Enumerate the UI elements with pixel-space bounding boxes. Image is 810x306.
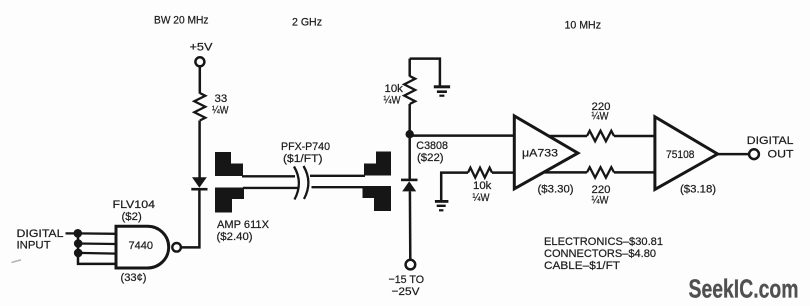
svg-text:DIGITAL: DIGITAL	[747, 135, 794, 147]
input wire to gate pin 3	[78, 252, 116, 255]
svg-text:−15 TO: −15 TO	[389, 274, 425, 286]
coax connector J1 lower shell	[215, 188, 244, 213]
svg-text:($3.30): ($3.30)	[538, 183, 574, 195]
coax cable top line left segment	[242, 175, 295, 177]
svg-text:($3.18): ($3.18)	[680, 183, 716, 195]
ground G2	[435, 200, 449, 211]
svg-text:($1/FT): ($1/FT)	[283, 153, 323, 165]
svg-text:(33¢): (33¢)	[121, 272, 147, 284]
svg-text:CABLE–$1/FT: CABLE–$1/FT	[544, 260, 620, 272]
resistor R4 220	[587, 131, 614, 141]
svg-text:ELECTRONICS–$30.81: ELECTRONICS–$30.81	[544, 236, 663, 248]
+5V terminal	[195, 57, 204, 66]
coax cable top line right segment	[310, 175, 365, 177]
svg-text:PFX-P740: PFX-P740	[281, 141, 330, 153]
input wire to gate pin 2	[78, 242, 116, 245]
svg-text:μA733: μA733	[522, 148, 558, 160]
resistor R3 10k	[468, 168, 492, 178]
svg-text:75108: 75108	[666, 149, 695, 161]
digital out label	[747, 135, 794, 161]
svg-text:¼W: ¼W	[212, 105, 229, 117]
diode D2 C3808	[401, 179, 418, 192]
svg-text:2 GHz: 2 GHz	[292, 17, 322, 29]
svg-text:SeekIC.com: SeekIC.com	[689, 276, 799, 304]
wire U3 output to terminal	[718, 153, 749, 156]
wire D1 to NAND output corner	[181, 191, 199, 248]
svg-text:+5V: +5V	[190, 42, 213, 54]
svg-text:−25V: −25V	[392, 286, 420, 298]
resistor R5 220	[587, 167, 614, 177]
svg-text:AMP 611X: AMP 611X	[217, 219, 269, 231]
svg-text:CONNECTORS–$4.80: CONNECTORS–$4.80	[544, 248, 656, 260]
digital input label	[17, 228, 64, 252]
scan artifact dash	[12, 260, 22, 263]
coax cable bottom line left segment	[243, 187, 298, 189]
input junction dot 3	[74, 249, 83, 258]
wire +5V terminal to R1	[199, 66, 202, 93]
svg-text:¼W: ¼W	[592, 195, 609, 207]
svg-text:OUT: OUT	[768, 149, 794, 161]
input wire to gate pin 1	[78, 232, 116, 235]
svg-text:($2.40): ($2.40)	[217, 231, 253, 243]
svg-text:¼W: ¼W	[592, 111, 609, 123]
svg-text:¼W: ¼W	[384, 95, 401, 107]
coax cable bottom line right segment	[312, 186, 365, 188]
input bus wire	[78, 233, 116, 264]
svg-text:FLV104: FLV104	[113, 199, 156, 211]
wire ground G2 to R3	[441, 173, 468, 201]
svg-text:33: 33	[215, 93, 228, 105]
wire junction to U2 +input	[410, 134, 515, 137]
svg-text:C3808: C3808	[416, 140, 448, 152]
digital out terminal	[749, 149, 759, 159]
diode D1 FLV104	[191, 177, 207, 190]
svg-text:($22): ($22)	[417, 152, 444, 164]
input lead wire	[66, 232, 79, 234]
coax connector J2 upper shell	[364, 152, 391, 176]
resistor R1 33 ohm	[194, 93, 205, 121]
svg-text:BW 20 MHz: BW 20 MHz	[154, 15, 209, 27]
resistor R2 10k	[404, 76, 415, 104]
svg-text:INPUT: INPUT	[17, 239, 51, 251]
svg-text:7440: 7440	[129, 240, 154, 252]
input junction dot 1	[74, 229, 83, 238]
-15V terminal	[406, 260, 416, 270]
junction node dot	[406, 130, 414, 138]
svg-text:¼W: ¼W	[473, 192, 490, 204]
wire D2 to -15V terminal	[409, 191, 412, 260]
svg-text:10k: 10k	[473, 180, 492, 192]
wire U2 top output to R4	[549, 135, 587, 138]
wire R5 to U3	[614, 171, 656, 174]
wire R3 to U2 -input	[492, 171, 515, 174]
amplifier U2 uA733	[514, 116, 578, 189]
line receiver U3 75108	[655, 117, 718, 190]
NAND gate U1 7440	[116, 226, 181, 268]
input junction dot 2	[74, 239, 83, 248]
svg-text:DIGITAL: DIGITAL	[17, 228, 64, 240]
wire U2 bottom output to R5	[545, 171, 588, 174]
coax connector J1 upper shell	[215, 152, 243, 176]
svg-text:10k: 10k	[385, 83, 404, 95]
wire junction to D2	[408, 134, 411, 179]
svg-text:10 MHz: 10 MHz	[565, 19, 602, 31]
wire R2 to junction node	[408, 104, 411, 135]
wire rail top to R2	[408, 59, 411, 77]
wire top rail to ground G1	[410, 59, 440, 86]
ground G1	[434, 85, 450, 96]
cable break mark left	[294, 167, 299, 200]
svg-text:($2): ($2)	[122, 211, 142, 223]
cable break mark right	[304, 166, 309, 199]
wire R1 to D1	[198, 121, 201, 178]
coax connector J2 lower shell	[363, 186, 392, 211]
wire R4 to U3	[614, 135, 656, 138]
